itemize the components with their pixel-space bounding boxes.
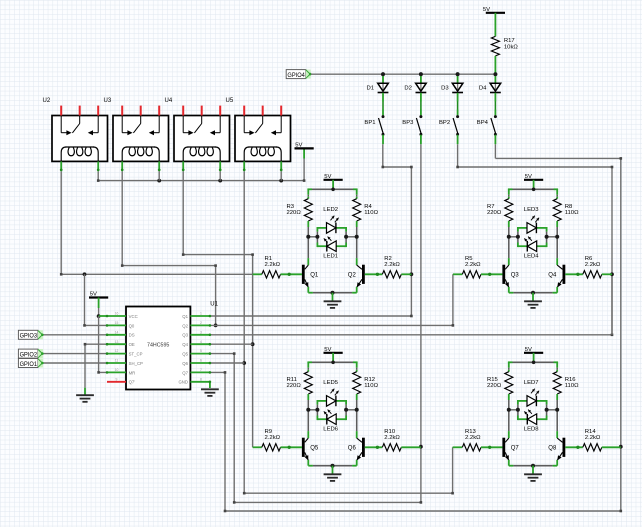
svg-text:Q3: Q3: [511, 272, 520, 278]
svg-text:Q1: Q1: [182, 314, 188, 319]
svg-text:R1: R1: [265, 256, 273, 262]
svg-text:Q7': Q7': [129, 380, 136, 385]
svg-text:GPIO2: GPIO2: [20, 351, 38, 358]
svg-text:110Ω: 110Ω: [364, 210, 378, 216]
svg-text:U4: U4: [165, 98, 173, 104]
svg-text:SH_CP: SH_CP: [129, 361, 143, 366]
svg-text:3: 3: [200, 330, 202, 334]
svg-text:16: 16: [115, 312, 119, 316]
svg-text:BP4: BP4: [477, 120, 489, 126]
svg-text:GND: GND: [178, 380, 188, 385]
svg-text:5: 5: [200, 349, 202, 353]
svg-text:220Ω: 220Ω: [287, 210, 302, 216]
svg-text:2.2kΩ: 2.2kΩ: [585, 435, 601, 441]
svg-text:R13: R13: [465, 429, 477, 435]
svg-text:2.2kΩ: 2.2kΩ: [265, 262, 281, 268]
svg-text:13: 13: [115, 340, 119, 344]
svg-text:LED5: LED5: [323, 380, 338, 386]
svg-text:GPIO3: GPIO3: [20, 333, 38, 340]
svg-text:2: 2: [200, 321, 202, 325]
svg-text:R17: R17: [504, 38, 515, 44]
svg-text:Q6: Q6: [182, 361, 188, 366]
svg-text:DS: DS: [129, 333, 135, 338]
svg-text:R16: R16: [565, 377, 577, 383]
svg-text:Q4: Q4: [548, 272, 557, 278]
svg-text:6: 6: [200, 359, 202, 363]
svg-text:BP2: BP2: [439, 120, 450, 126]
svg-text:LED2: LED2: [323, 207, 338, 213]
svg-text:LED8: LED8: [524, 426, 539, 432]
svg-text:D4: D4: [479, 86, 487, 92]
svg-text:12: 12: [115, 349, 119, 353]
svg-text:220Ω: 220Ω: [487, 210, 502, 216]
svg-text:D2: D2: [404, 86, 412, 92]
svg-text:Q5: Q5: [182, 352, 188, 357]
svg-text:110Ω: 110Ω: [364, 383, 378, 389]
svg-text:2.2kΩ: 2.2kΩ: [265, 435, 281, 441]
svg-text:4: 4: [200, 340, 202, 344]
svg-text:R6: R6: [585, 256, 593, 262]
svg-text:2.2kΩ: 2.2kΩ: [384, 262, 400, 268]
svg-text:R10: R10: [384, 429, 396, 435]
svg-text:15: 15: [115, 321, 119, 325]
svg-text:9: 9: [116, 377, 118, 381]
svg-text:R5: R5: [465, 256, 473, 262]
svg-text:U1: U1: [210, 301, 218, 307]
svg-text:R4: R4: [364, 204, 372, 210]
svg-text:2.2kΩ: 2.2kΩ: [465, 435, 481, 441]
svg-text:74HC595: 74HC595: [147, 342, 169, 348]
svg-text:1: 1: [200, 312, 202, 316]
svg-text:Q2: Q2: [348, 272, 357, 278]
svg-text:R3: R3: [287, 204, 295, 210]
svg-text:R12: R12: [364, 377, 375, 383]
svg-text:BP3: BP3: [402, 120, 414, 126]
svg-text:Q7: Q7: [511, 445, 520, 451]
svg-text:R14: R14: [585, 429, 597, 435]
svg-text:Q3: Q3: [182, 333, 188, 338]
svg-text:LED1: LED1: [323, 253, 338, 259]
svg-text:Q7: Q7: [182, 370, 188, 375]
svg-text:10kΩ: 10kΩ: [504, 45, 518, 51]
svg-text:OE: OE: [129, 342, 135, 347]
svg-text:220Ω: 220Ω: [487, 383, 502, 389]
svg-text:LED7: LED7: [524, 380, 539, 386]
svg-text:U5: U5: [226, 98, 234, 104]
svg-text:220Ω: 220Ω: [287, 383, 302, 389]
svg-text:R9: R9: [265, 429, 273, 435]
svg-text:D1: D1: [367, 86, 375, 92]
svg-text:2.2kΩ: 2.2kΩ: [585, 262, 601, 268]
svg-text:MR: MR: [129, 370, 136, 375]
svg-text:10: 10: [115, 368, 119, 372]
svg-text:LED4: LED4: [524, 253, 539, 259]
svg-text:U2: U2: [43, 98, 51, 104]
svg-text:GPIO4: GPIO4: [287, 72, 305, 79]
svg-text:2.2kΩ: 2.2kΩ: [384, 435, 400, 441]
svg-text:14: 14: [115, 330, 119, 334]
svg-text:R8: R8: [565, 204, 573, 210]
svg-text:11: 11: [115, 359, 119, 363]
svg-text:2.2kΩ: 2.2kΩ: [465, 262, 481, 268]
svg-text:U3: U3: [104, 98, 112, 104]
svg-text:Q8: Q8: [548, 445, 557, 451]
svg-text:ST_CP: ST_CP: [129, 352, 143, 357]
svg-text:R15: R15: [487, 377, 499, 383]
svg-text:BP1: BP1: [364, 120, 375, 126]
svg-text:Q0: Q0: [129, 323, 135, 328]
svg-text:Q1: Q1: [310, 272, 319, 278]
svg-text:GPIO1: GPIO1: [20, 361, 38, 368]
svg-text:R7: R7: [487, 204, 495, 210]
svg-text:8: 8: [200, 377, 202, 381]
svg-text:R2: R2: [384, 256, 392, 262]
svg-text:7: 7: [200, 368, 202, 372]
svg-text:110Ω: 110Ω: [565, 383, 579, 389]
svg-text:LED3: LED3: [524, 207, 539, 213]
svg-text:Q2: Q2: [182, 323, 188, 328]
svg-text:Q6: Q6: [348, 445, 357, 451]
svg-text:Q4: Q4: [182, 342, 188, 347]
svg-text:D3: D3: [441, 86, 449, 92]
svg-text:LED6: LED6: [323, 426, 338, 432]
svg-text:VCC: VCC: [129, 314, 138, 319]
svg-text:Q5: Q5: [310, 445, 319, 451]
svg-text:110Ω: 110Ω: [565, 210, 579, 216]
svg-text:R11: R11: [287, 377, 297, 383]
